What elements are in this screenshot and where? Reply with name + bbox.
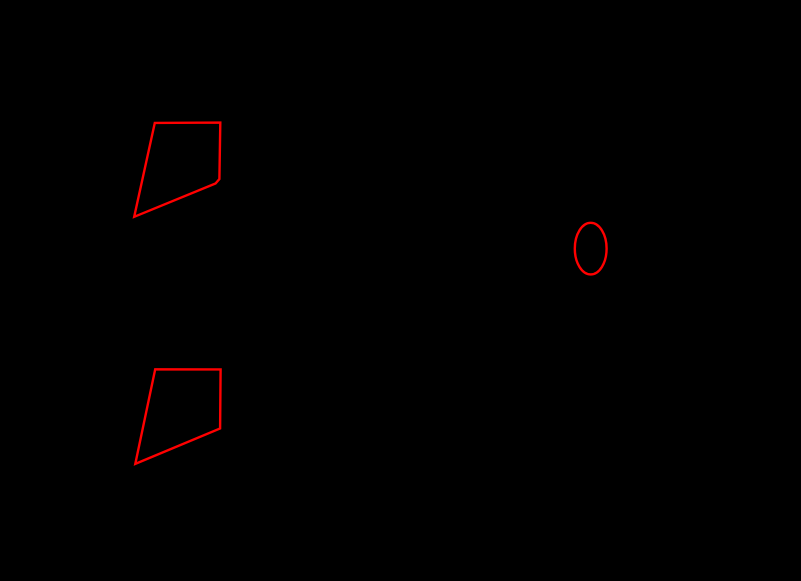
annotation quad 2 (lower-left red freehand outline)	[135, 369, 220, 464]
annotation ellipse O (right red freehand circle)	[575, 223, 607, 275]
annotation quad 1 (upper-left red freehand outline)	[134, 123, 220, 217]
